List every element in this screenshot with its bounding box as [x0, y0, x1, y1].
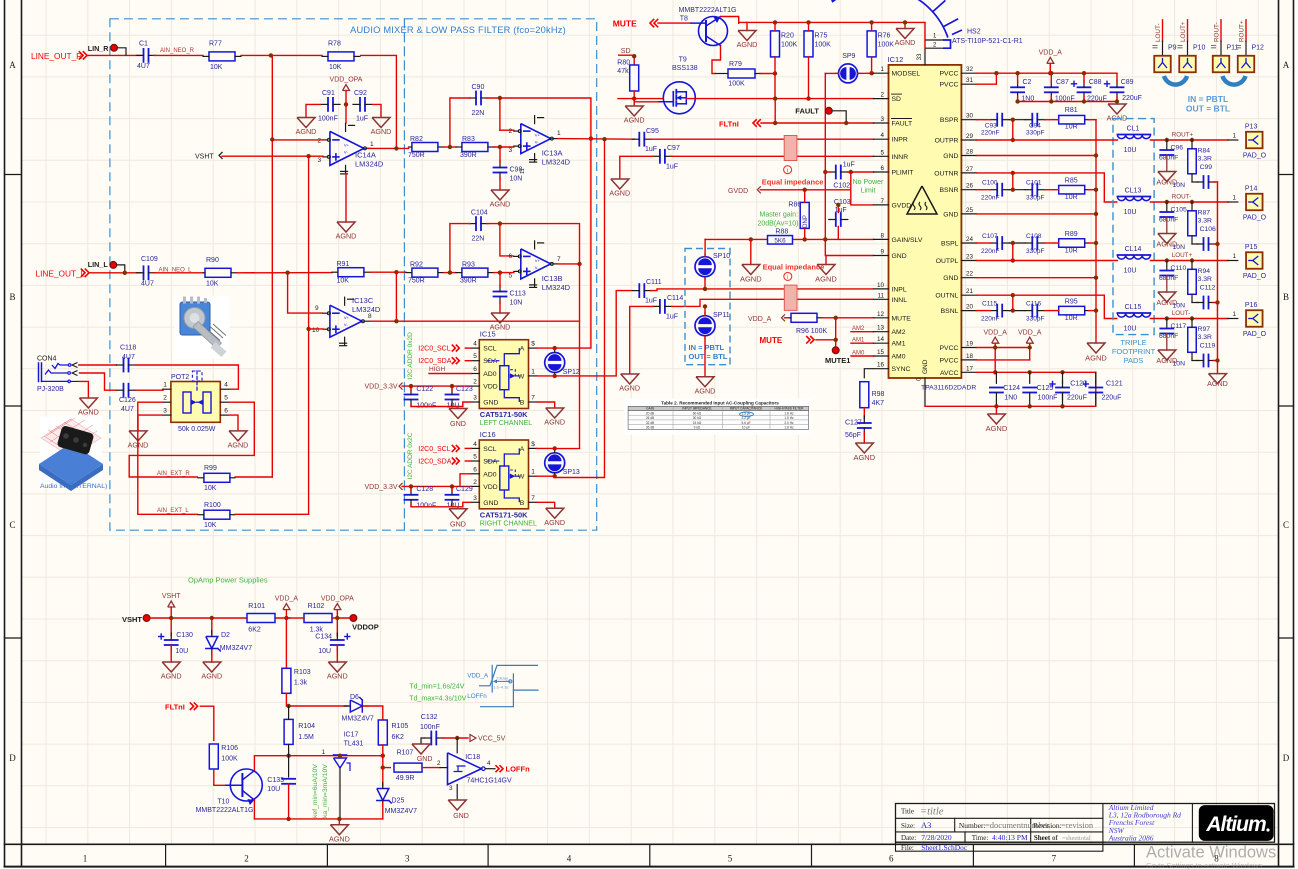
svg-text:7: 7 [557, 256, 561, 263]
wire C112 to zobel bus [1214, 302, 1218, 304]
svg-text:IC13C: IC13C [352, 296, 374, 305]
ground AGND gain divider [750, 239, 752, 264]
svg-text:R76: R76 [878, 33, 891, 40]
svg-text:50k 0.025W: 50k 0.025W [178, 426, 216, 433]
svg-text:VDD_OPA: VDD_OPA [330, 77, 363, 84]
potentiometer POT2 body [171, 382, 220, 423]
wire SP12-A to IC13A out (V1) [555, 347, 591, 349]
CON4 sleeve contact [42, 380, 69, 382]
svg-text:6K2: 6K2 [392, 734, 405, 741]
svg-text:3: 3 [318, 157, 322, 164]
svg-text:1: 1 [531, 368, 535, 375]
svg-text:C105: C105 [1171, 207, 1187, 214]
wire C126 to POT pin1 [136, 389, 163, 391]
wire SP9 left PLIMIT bus [825, 72, 838, 74]
svg-text:10K: 10K [204, 522, 217, 529]
pad P13 [1246, 132, 1263, 149]
resistor R87 3.3R [1188, 211, 1197, 236]
HS2 pins [926, 39, 943, 41]
svg-text:27: 27 [966, 166, 974, 173]
svg-text:i: i [787, 275, 788, 281]
svg-text:1: 1 [163, 382, 167, 389]
svg-text:680nF: 680nF [1159, 333, 1178, 340]
svg-text:AGND: AGND [695, 386, 716, 395]
svg-text:MM3Z4V7: MM3Z4V7 [385, 808, 417, 815]
svg-text:7: 7 [531, 495, 535, 502]
resistor R93 [462, 268, 488, 277]
svg-text:GND: GND [450, 419, 466, 428]
svg-text:C91: C91 [322, 90, 335, 97]
svg-text:=title: =title [920, 807, 944, 818]
svg-text:I2C0_SDA: I2C0_SDA [418, 358, 451, 365]
svg-text:10R: 10R [1065, 315, 1078, 322]
wire MUTE to T8 base [658, 22, 691, 24]
svg-text:1: 1 [1232, 133, 1236, 140]
svg-text:60 kΩ: 60 kΩ [693, 411, 702, 415]
svg-text:CL15: CL15 [1125, 304, 1142, 311]
svg-text:P9: P9 [1168, 44, 1177, 51]
svg-text:1uF: 1uF [666, 314, 678, 321]
svg-text:=revision: =revision [1061, 820, 1094, 830]
svg-text:AGND: AGND [986, 424, 1008, 433]
wire C99 to zobel bus [1214, 181, 1218, 183]
svg-text:10N: 10N [1173, 182, 1186, 189]
wire CL1 out to pad P13 [1150, 139, 1228, 141]
svg-text:25: 25 [966, 207, 974, 214]
ground AGND C91 [297, 118, 315, 128]
svg-text:CL14: CL14 [1125, 246, 1142, 253]
wire CL15 out to pad P16 [1150, 318, 1228, 320]
resistor R84 3.3R [1188, 149, 1197, 174]
svg-text:TRIPLE: TRIPLE [1120, 338, 1146, 347]
svg-text:32 dB: 32 dB [646, 421, 654, 425]
svg-text:10U: 10U [1124, 326, 1137, 333]
svg-text:CL13: CL13 [1125, 188, 1142, 195]
svg-text:15 kΩ: 15 kΩ [693, 421, 702, 425]
svg-text:AIN_EXT_L: AIN_EXT_L [157, 508, 189, 514]
op-amp IC13C [330, 305, 362, 337]
svg-text:AGND: AGND [161, 672, 182, 681]
pad P9 [1154, 56, 1171, 73]
op-amp IC14A [330, 131, 364, 165]
capacitor C103 [835, 213, 837, 226]
wire OUTPR to CL1 [976, 139, 1117, 141]
svg-text:GND: GND [943, 211, 958, 218]
svg-text:47k: 47k [617, 68, 629, 75]
svg-text:C97: C97 [667, 145, 680, 152]
svg-text:4K7: 4K7 [872, 400, 885, 407]
svg-text:AIN_NEO_R: AIN_NEO_R [160, 48, 195, 54]
svg-text:AGND: AGND [895, 38, 916, 47]
svg-text:No Power: No Power [853, 179, 884, 186]
svg-text:Go to Settings to activate Win: Go to Settings to activate Windows. [1146, 861, 1264, 869]
svg-text:R75: R75 [815, 33, 828, 40]
svg-text:22N: 22N [472, 236, 485, 243]
svg-text:LIN_R: LIN_R [88, 44, 110, 53]
wire C111 to INPL pin10 [650, 289, 874, 291]
svg-text:1: 1 [83, 854, 88, 864]
resistor R91 [338, 268, 364, 277]
wire SP10 into INPL row [704, 278, 706, 289]
wire T8 emitter to AGND [721, 17, 739, 25]
svg-text:1uF: 1uF [356, 116, 368, 123]
svg-text:23: 23 [966, 254, 974, 261]
svg-text:MMBT2222ALT1G: MMBT2222ALT1G [679, 7, 737, 14]
svg-text:SCL: SCL [483, 346, 496, 353]
svg-text:680nF: 680nF [1159, 217, 1178, 224]
svg-text:1.3k: 1.3k [294, 680, 308, 687]
svg-text:AGND: AGND [490, 200, 511, 209]
svg-text:A3: A3 [921, 820, 931, 830]
svg-text:3: 3 [509, 147, 513, 154]
svg-text:Sheet1.SchDoc: Sheet1.SchDoc [921, 843, 968, 852]
svg-text:C117: C117 [1171, 323, 1187, 330]
svg-text:V+: V+ [535, 133, 541, 138]
capacitor C90 [475, 92, 477, 105]
svg-text:INNR: INNR [892, 154, 909, 161]
svg-text:R93: R93 [462, 262, 475, 269]
capacitor C129 [446, 494, 459, 496]
svg-text:10K: 10K [329, 64, 342, 71]
diode D25 zener [382, 768, 384, 786]
svg-text:2: 2 [437, 760, 441, 767]
wire C118 to POT pin4 [136, 365, 239, 389]
wire IC13A out to C95 row [558, 138, 634, 141]
ic IC16 CAT5171 body [479, 440, 528, 509]
svg-text:5: 5 [509, 273, 513, 280]
capacitor C128 [405, 494, 418, 496]
wire VDD_A left arrow down [994, 343, 996, 372]
svg-text:R88: R88 [775, 228, 788, 235]
wire IC13C output [370, 320, 580, 322]
wire pin31 jog [976, 73, 996, 84]
svg-text:100K: 100K [878, 42, 895, 49]
wire R80 to T9 gate [633, 91, 635, 102]
pad P15 [1246, 252, 1263, 269]
svg-text:$: $ [531, 341, 535, 348]
svg-text:R89: R89 [1065, 231, 1078, 238]
capacitor C87 [1045, 86, 1058, 88]
wire SD row [618, 55, 634, 66]
svg-text:5: 5 [473, 353, 477, 360]
svg-text:V-: V- [535, 140, 539, 145]
svg-text:SYNC: SYNC [892, 366, 911, 373]
capacitor C114 [659, 300, 661, 313]
capacitor C92 [359, 98, 361, 111]
svg-text:LOUT+: LOUT+ [1180, 21, 1187, 42]
resistor R95 [1059, 306, 1085, 315]
svg-text:PVCC: PVCC [940, 82, 959, 89]
op-amp IC13B [521, 249, 551, 279]
svg-text:OUT = BTL: OUT = BTL [689, 352, 728, 361]
svg-text:2: 2 [509, 128, 513, 135]
resistor R103 [285, 618, 287, 668]
svg-text:CAT5171-50K: CAT5171-50K [480, 410, 528, 419]
svg-text:AGND: AGND [371, 127, 392, 136]
wire OUTNL jog [976, 295, 1117, 318]
ground AGND C98 [499, 178, 501, 191]
svg-text:FLTnI: FLTnI [719, 119, 739, 128]
svg-text:V-: V- [535, 265, 539, 270]
svg-text:R92: R92 [410, 262, 423, 269]
svg-text:C99: C99 [1200, 164, 1213, 171]
svg-text:AGND: AGND [296, 127, 317, 136]
top rail MODSEL pullups [739, 21, 925, 23]
ground AGND SP11 [696, 377, 714, 387]
svg-text:10U: 10U [1124, 209, 1137, 216]
wire GVDD row [760, 189, 851, 191]
svg-text:AM1: AM1 [892, 341, 906, 348]
capacitor C127 [858, 422, 871, 424]
wire IC14A output [368, 147, 409, 149]
svg-text:6K2: 6K2 [248, 627, 261, 634]
ground GND IC15 [457, 407, 459, 409]
svg-text:of: of [1052, 834, 1059, 842]
power port VDD_A opamp [283, 604, 290, 610]
svg-text:10N: 10N [510, 300, 523, 307]
svg-text:330pF: 330pF [1026, 248, 1044, 255]
wire pin2 up to C90 [499, 98, 501, 130]
svg-text:R80: R80 [617, 60, 630, 67]
svg-text:3.3R: 3.3R [1198, 334, 1212, 341]
svg-text:330pF: 330pF [1026, 129, 1044, 136]
svg-text:R97: R97 [1198, 326, 1211, 333]
resistor R77 [209, 52, 235, 61]
svg-text:4: 4 [880, 132, 884, 139]
ic IC12 TPA3116D2DADR body [889, 65, 962, 378]
svg-text:VDD_A: VDD_A [275, 596, 299, 603]
svg-text:1: 1 [557, 130, 561, 137]
svg-text:VDDOP: VDDOP [352, 623, 379, 632]
svg-text:10U: 10U [1124, 147, 1137, 154]
resistor R100 [204, 510, 230, 519]
svg-text:i: i [787, 168, 788, 174]
svg-text:Time:: Time: [972, 834, 989, 842]
svg-text:LM324D: LM324D [352, 305, 381, 314]
resistor R82 [412, 143, 438, 152]
wire D6 to R105 [362, 706, 383, 720]
svg-text:220nF: 220nF [981, 248, 999, 255]
svg-text:220uF: 220uF [1102, 395, 1122, 402]
svg-text:HS2: HS2 [967, 29, 981, 36]
svg-text:3: 3 [473, 495, 477, 502]
svg-text:VCC_5V: VCC_5V [478, 736, 506, 743]
svg-text:A: A [520, 346, 525, 353]
svg-text:SCL: SCL [483, 446, 496, 453]
ground GND IC16 [457, 507, 459, 509]
svg-text:3.3R: 3.3R [1198, 276, 1212, 283]
svg-text:BSNR: BSNR [940, 187, 959, 194]
svg-text:22: 22 [966, 271, 974, 278]
svg-text:MODSEL: MODSEL [892, 71, 921, 78]
svg-text:W: W [518, 474, 525, 481]
svg-text:C122: C122 [416, 386, 433, 393]
svg-text:1: 1 [1232, 195, 1236, 202]
IC12 thermal triangle [907, 186, 937, 214]
svg-text:Tdelay: Tdelay [496, 675, 508, 680]
svg-text:FLTnI: FLTnI [165, 703, 185, 712]
wire R103 bottom row [289, 705, 348, 707]
dashed box PBTL note [685, 249, 730, 365]
wire MUTE to MUTE1 [816, 339, 836, 341]
svg-text:7: 7 [1052, 854, 1057, 864]
svg-text:C89: C89 [1121, 79, 1134, 86]
capacitor C133 polar [288, 756, 290, 777]
svg-text:AM0: AM0 [892, 354, 906, 361]
wire IC16 AD0 tie [460, 474, 471, 486]
svg-text:3: 3 [880, 116, 884, 123]
svg-text:Equal impedance: Equal impedance [763, 263, 825, 272]
svg-text:750R: 750R [408, 152, 425, 159]
svg-text:R84: R84 [1198, 148, 1211, 155]
svg-text:AGND: AGND [327, 672, 348, 681]
wire IC15 W row [537, 375, 555, 377]
wire LIN_L to IC13C pin9 [288, 272, 323, 313]
svg-text:11: 11 [877, 292, 884, 299]
svg-text:10U: 10U [175, 648, 188, 655]
svg-text:TL431: TL431 [344, 741, 364, 748]
capacitor C105 680nF [1166, 202, 1168, 211]
svg-text:GND: GND [943, 275, 958, 282]
wire C93-C94 link down [1012, 120, 1014, 140]
svg-text:D: D [1283, 753, 1290, 763]
svg-text:8: 8 [368, 313, 372, 320]
svg-text:10: 10 [312, 327, 320, 334]
capacitor C2 [1011, 86, 1024, 88]
wire C114 left to AGND [630, 306, 654, 374]
wire R106 to T10 base [214, 769, 226, 785]
capacitor C125 [1029, 372, 1031, 383]
altium logo [1199, 805, 1274, 841]
svg-text:31: 31 [966, 77, 974, 84]
svg-text:TPA3116D2DADR: TPA3116D2DADR [921, 385, 976, 392]
diode D6 zener [350, 700, 362, 712]
svg-text:1uF: 1uF [645, 298, 657, 305]
svg-text:C2: C2 [1023, 79, 1032, 86]
svg-text:=sheettotal: =sheettotal [1062, 835, 1091, 842]
svg-text:17: 17 [966, 365, 974, 372]
svg-text:3: 3 [405, 854, 410, 864]
bottom rail to AGND [254, 818, 382, 820]
svg-text:1.5M: 1.5M [298, 734, 314, 741]
svg-text:10U: 10U [267, 786, 280, 793]
svg-text:2: 2 [880, 92, 884, 99]
svg-text:BSPL: BSPL [941, 241, 959, 248]
dashed box triple footprint [1113, 119, 1154, 335]
svg-text:C118: C118 [120, 345, 136, 352]
svg-text:INPR: INPR [892, 137, 908, 144]
svg-text:Title: Title [901, 808, 914, 816]
wire LINE_OUT_L [90, 272, 141, 274]
wire R79 to R20 bottom [760, 73, 775, 75]
svg-text:I2C0_SCL: I2C0_SCL [418, 346, 450, 353]
svg-text:C: C [1283, 520, 1289, 530]
IC16 internal pot [500, 466, 509, 490]
ground AGND D2 [203, 662, 221, 672]
svg-text:56pF: 56pF [845, 432, 861, 439]
bottom cap rail [925, 405, 1096, 407]
wire SP9 right to MODSEL [858, 72, 874, 74]
svg-text:R103: R103 [294, 669, 311, 676]
resistor R89 [1059, 239, 1085, 248]
svg-text:6: 6 [889, 854, 894, 864]
svg-text:330pF: 330pF [1026, 195, 1044, 202]
wire VSHT row [150, 617, 290, 619]
svg-text:3: 3 [163, 408, 167, 415]
speaker symbol SP13 [545, 453, 565, 473]
wire OUTPL to CL14 [976, 260, 1117, 262]
svg-text:100nF: 100nF [1038, 395, 1058, 402]
IC18 output LOFFn [482, 767, 486, 771]
svg-text:Sheet: Sheet [1034, 834, 1051, 842]
speaker symbol SP12 [545, 353, 565, 373]
svg-text:R96 100K: R96 100K [796, 328, 827, 335]
svg-text:4: 4 [224, 382, 228, 389]
resistor R78 [328, 52, 354, 61]
svg-text:1: 1 [531, 469, 535, 476]
svg-text:SP11: SP11 [713, 312, 730, 319]
resistor R81 [1059, 115, 1085, 124]
svg-text:C98: C98 [510, 167, 523, 174]
svg-text:ATS-TI10P-521-C1-R1: ATS-TI10P-521-C1-R1 [952, 38, 1023, 45]
svg-text:30 kΩ: 30 kΩ [693, 416, 702, 420]
svg-text:2.0 Hz: 2.0 Hz [784, 421, 794, 425]
svg-text:MUTE: MUTE [892, 315, 912, 322]
resistor R88 [768, 236, 793, 245]
gain row GAIN/SLV pin8 [705, 238, 873, 240]
capacitor C100 [996, 184, 998, 196]
svg-text:D: D [9, 753, 16, 763]
svg-text:OUTPL: OUTPL [936, 258, 959, 265]
svg-text:PVCC: PVCC [940, 71, 959, 78]
svg-text:Activate Windows: Activate Windows [1146, 844, 1276, 862]
wire gain row to SP10 top [704, 239, 706, 256]
svg-text:AVCC: AVCC [940, 370, 958, 377]
svg-text:C127: C127 [845, 419, 862, 426]
svg-text:330pF: 330pF [1026, 315, 1044, 322]
wire IC15 B to AGND [537, 402, 555, 408]
resistor R86 DNP [800, 202, 809, 228]
wire T8 collector to R79 [712, 46, 721, 74]
svg-text:AM2: AM2 [892, 329, 906, 336]
svg-text:GND: GND [453, 813, 469, 820]
wire IC16 B to AGND [537, 502, 555, 508]
resistor R104 [284, 719, 293, 744]
svg-text:6: 6 [473, 466, 477, 473]
svg-text:PVCC: PVCC [940, 357, 959, 364]
wire R90 to R91 [237, 272, 332, 274]
ground AGND zobel bus [1209, 374, 1227, 384]
wire R91 to R92 [370, 271, 406, 273]
svg-text:AGND: AGND [336, 232, 357, 241]
svg-text:P14: P14 [1245, 186, 1258, 193]
feedback vertical R91-IC13C [395, 272, 397, 321]
svg-text:C96: C96 [1171, 145, 1184, 152]
svg-text:4: 4 [473, 441, 477, 448]
svg-text:6: 6 [224, 408, 228, 415]
svg-text:Date:: Date: [901, 834, 916, 842]
ground AGND T8 [746, 22, 748, 30]
ground AGND C92 [372, 118, 390, 128]
svg-text:10: 10 [877, 282, 885, 289]
svg-text:5.6 µF: 5.6 µF [741, 421, 750, 425]
capacitor C110 680nF [1166, 261, 1168, 270]
svg-text:B: B [9, 292, 15, 302]
svg-text:MUTE: MUTE [613, 19, 637, 29]
wire R93 to pin5 [494, 272, 514, 274]
svg-text:C87: C87 [1056, 79, 1069, 86]
svg-text:AGND: AGND [544, 518, 565, 527]
